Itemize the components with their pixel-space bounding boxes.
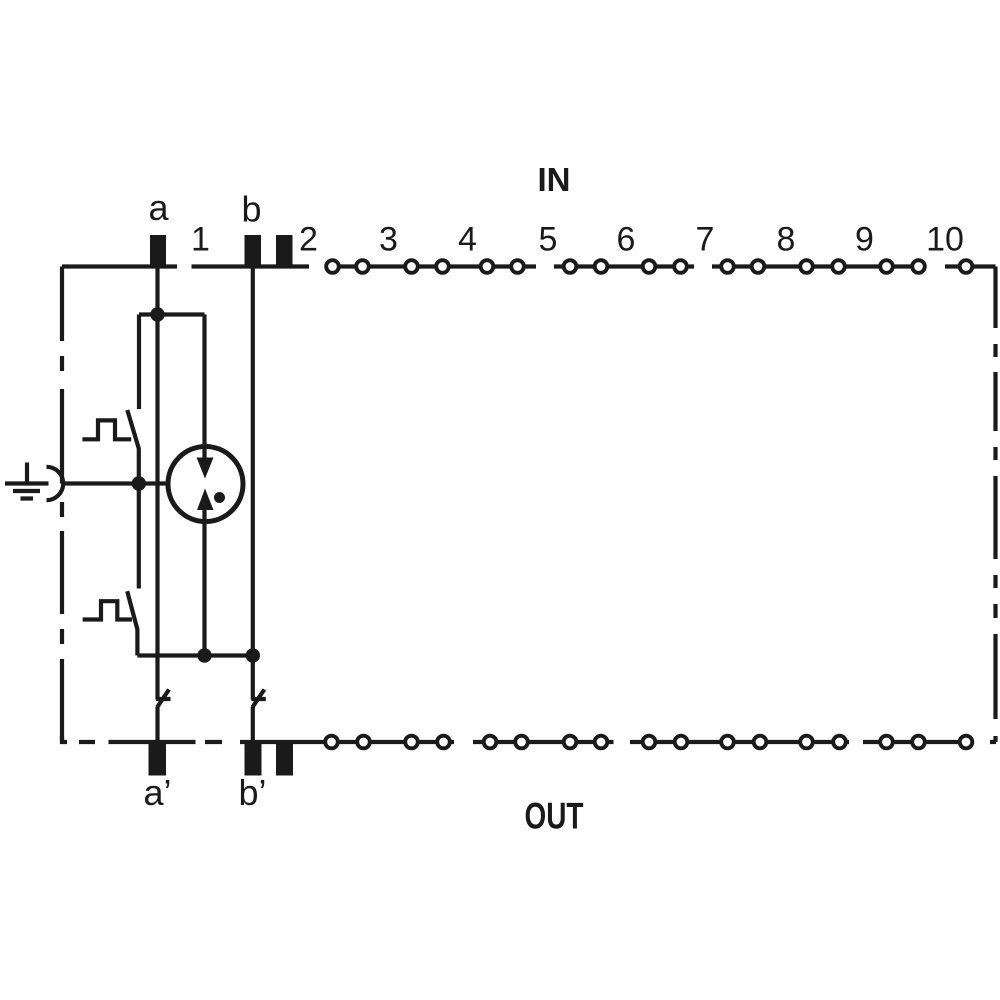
svg-text:2: 2 bbox=[299, 221, 318, 259]
svg-text:8: 8 bbox=[777, 221, 796, 259]
svg-text:b: b bbox=[241, 189, 261, 230]
wire junction J1 branch (horizontal at y=314.5) bbox=[139, 312, 205, 316]
disconnector b (thermal disconnect) bbox=[251, 690, 265, 708]
junction J3 bbox=[197, 648, 211, 662]
disconnector a (thermal disconnect) bbox=[156, 690, 171, 708]
wire to upper spark gap contact bbox=[137, 315, 141, 410]
IN bus wire segment (label 1 through terminal 2) bbox=[192, 264, 310, 268]
trigger pulse symbol (lower) bbox=[83, 601, 132, 619]
spark gap switch blade (lower) bbox=[127, 591, 137, 655]
junction J2 (ground node) bbox=[132, 476, 146, 490]
svg-text:10: 10 bbox=[926, 221, 964, 259]
wire arrester top drop bbox=[202, 315, 206, 445]
OUT bus wire (dash-dot left portion and solid segments) bbox=[62, 736, 974, 742]
surge arrester U1 (triggered spark gap) circle bbox=[168, 447, 243, 522]
svg-text:IN: IN bbox=[538, 161, 571, 198]
terminal b (black pad) bbox=[245, 235, 262, 267]
arrester arrow up bbox=[197, 489, 214, 511]
terminal 2 (black pad) bbox=[276, 235, 293, 267]
frame bottom-right corner stub bbox=[990, 740, 996, 744]
arrester dot bbox=[214, 492, 225, 503]
junction J1 bbox=[150, 307, 164, 321]
arrester internal lead bottom / drop to junction bbox=[202, 510, 206, 656]
svg-text:6: 6 bbox=[617, 221, 636, 259]
earth wire (ground to junction J2 and to arrester) bbox=[64, 481, 166, 485]
spark gap switch blade (upper) bbox=[127, 410, 139, 484]
IN bus wire segments between terminal circles bbox=[330, 264, 996, 268]
isolating spark gap arc to earth bbox=[47, 467, 64, 500]
svg-text:4: 4 bbox=[458, 221, 477, 259]
wire lower spark gap contact (J2 down) bbox=[137, 484, 141, 589]
wire b (terminal b down to disconnector) bbox=[251, 267, 255, 700]
terminal b'2 (black pad) bbox=[276, 743, 293, 776]
wire a (terminal a down to disconnector) bbox=[155, 267, 159, 700]
IN terminal circles row (pairs 3-10) bbox=[326, 260, 972, 273]
frame left (dash-dot boundary) bbox=[60, 267, 64, 743]
arrester arrow down bbox=[197, 458, 214, 479]
frame right (dash-dot boundary) bbox=[993, 267, 997, 743]
svg-text:OUT: OUT bbox=[525, 796, 584, 837]
trigger pulse symbol (upper) bbox=[82, 420, 131, 439]
arrester internal lead top bbox=[202, 447, 206, 459]
svg-text:7: 7 bbox=[696, 221, 715, 259]
svg-text:a: a bbox=[148, 187, 169, 228]
svg-text:b’: b’ bbox=[238, 772, 266, 813]
svg-text:3: 3 bbox=[379, 221, 398, 259]
svg-text:a’: a’ bbox=[143, 772, 171, 813]
junction J4 bbox=[246, 648, 260, 662]
terminal a' (black pad) bbox=[149, 743, 167, 776]
wire b lower (disconnector to terminal b') bbox=[251, 707, 255, 744]
IN bus wire segment (corner to terminal a gap) bbox=[62, 264, 177, 268]
svg-text:9: 9 bbox=[855, 221, 874, 259]
svg-text:1: 1 bbox=[191, 221, 210, 259]
wire OUT junction bus (y=655.5) bbox=[137, 653, 252, 657]
ground symbol bbox=[5, 463, 49, 499]
svg-text:5: 5 bbox=[539, 221, 558, 259]
terminal b' (black pad) bbox=[245, 743, 262, 776]
wire a lower (disconnector to terminal a') bbox=[155, 707, 159, 744]
terminal a (black pad) bbox=[150, 235, 166, 267]
OUT terminal circles row bbox=[325, 736, 972, 749]
